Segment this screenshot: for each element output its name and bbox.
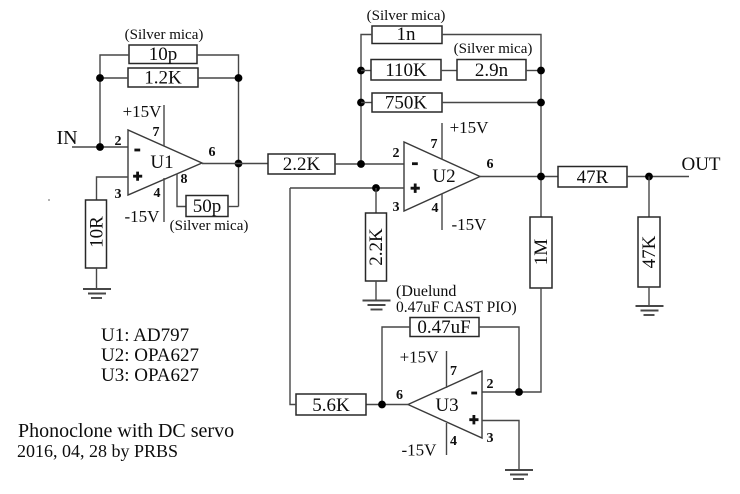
wire R3 to U2 pin 2	[335, 163, 404, 165]
wire R9 to U3 pin 2 row	[482, 288, 541, 392]
node junction left feedback	[96, 74, 104, 82]
stray dot	[48, 199, 50, 201]
op-amp U3	[408, 371, 482, 438]
wire U1 pin 3 to R2	[97, 177, 129, 200]
svg-text:(Silver mica): (Silver mica)	[454, 41, 533, 57]
U1 -15V supply	[125, 178, 164, 226]
U2 minus input mark	[412, 162, 418, 165]
svg-text:Phonoclone with DC servo: Phonoclone with DC servo	[18, 420, 234, 442]
wire from node to R1 left	[100, 77, 128, 79]
svg-text:1n: 1n	[397, 24, 417, 45]
node junction right 2.9n	[537, 67, 545, 75]
U1 +15V supply	[123, 102, 164, 146]
wire R6 to ground	[375, 281, 377, 300]
wire pin3 node to R6	[375, 188, 377, 213]
wire U1 pin 8 to C2	[177, 174, 186, 207]
svg-text:2.2K: 2.2K	[366, 228, 387, 266]
svg-text:(Duelund: (Duelund	[396, 283, 456, 300]
resistor R8 47K	[638, 217, 660, 287]
svg-text:3: 3	[393, 200, 400, 215]
svg-text:U1: U1	[150, 152, 173, 173]
wire feedback2 left vertical	[361, 35, 372, 165]
resistor R9 1M	[530, 217, 552, 288]
svg-text:-15V: -15V	[402, 441, 438, 460]
resistor R2 10R	[86, 200, 108, 268]
svg-text:-15V: -15V	[452, 215, 488, 234]
wire U1 output	[202, 163, 268, 165]
svg-text:U3: OPA627: U3: OPA627	[101, 365, 199, 386]
svg-text:(Silver mica): (Silver mica)	[125, 27, 204, 43]
U3 -15V supply	[402, 423, 447, 460]
svg-text:5.6K: 5.6K	[312, 395, 350, 416]
svg-text:10p: 10p	[149, 44, 178, 65]
resistor R1 1.2K	[128, 68, 198, 89]
svg-text:3: 3	[487, 431, 494, 446]
resistor R3 2.2K	[268, 154, 335, 175]
capacitor C4 2.9n	[457, 60, 526, 82]
wire U2 pin 3 row	[290, 187, 404, 189]
U3 plus input mark	[469, 415, 478, 424]
wire C5 left to servo output node	[382, 327, 410, 405]
svg-text:2: 2	[487, 377, 494, 392]
svg-text:6: 6	[209, 145, 216, 160]
svg-text:6: 6	[487, 157, 494, 172]
svg-text:OUT: OUT	[681, 154, 720, 175]
U3 +15V supply	[400, 348, 447, 389]
node junction pin3 shunt	[372, 184, 380, 192]
svg-text:2: 2	[393, 146, 400, 161]
U1 plus input mark	[133, 172, 142, 181]
svg-text:4: 4	[432, 201, 439, 216]
svg-text:0.47uF CAST PIO): 0.47uF CAST PIO)	[396, 299, 517, 316]
svg-text:2: 2	[115, 134, 122, 149]
svg-text:(Silver mica): (Silver mica)	[367, 8, 446, 24]
wire node to 110K left	[361, 70, 371, 72]
wire feedback2 right vertical	[442, 35, 541, 218]
ground under R2	[83, 289, 111, 298]
svg-text:47K: 47K	[639, 235, 660, 268]
U1 minus input mark	[134, 149, 140, 152]
capacitor C2 50p	[186, 196, 228, 218]
node junction right feedback	[235, 74, 243, 82]
node junction right 750K	[537, 99, 545, 107]
svg-text:U3: U3	[435, 395, 458, 416]
junction on IN wire	[96, 143, 104, 151]
svg-text:110K: 110K	[385, 60, 427, 81]
ground under U3 pin 3	[505, 470, 533, 479]
svg-text:1.2K: 1.2K	[144, 68, 182, 89]
wire R8 to ground	[648, 287, 650, 306]
svg-text:750K: 750K	[385, 93, 428, 114]
wire C5 right to U3 pin 2	[479, 327, 519, 392]
wire U2 output	[480, 176, 558, 178]
wire R2 to ground	[96, 268, 98, 289]
svg-text:7: 7	[153, 125, 160, 140]
wire U3 pin 3 to ground	[482, 421, 519, 471]
wire IN to U1 pin 2	[72, 146, 128, 148]
svg-text:U2: OPA627: U2: OPA627	[101, 345, 199, 366]
capacitor C5 0.47uF	[410, 317, 479, 338]
svg-text:4: 4	[450, 434, 457, 449]
ground under R8	[636, 306, 664, 315]
op-amp U2	[404, 142, 480, 211]
svg-text:10R: 10R	[87, 216, 108, 248]
svg-text:2.9n: 2.9n	[475, 60, 509, 81]
U3 minus input mark	[471, 392, 477, 395]
wire feedback left vertical	[100, 55, 129, 147]
wire node to 750K left	[361, 102, 372, 104]
wire tap to R8	[648, 177, 650, 218]
node U1 output junction	[235, 160, 243, 168]
node junction left 110K	[357, 67, 365, 75]
node U2 output junction	[537, 173, 545, 181]
resistor R4 110K	[371, 60, 441, 82]
wire R10 to U2 pin 3	[290, 188, 296, 405]
svg-text:2.2K: 2.2K	[283, 154, 321, 175]
svg-text:+15V: +15V	[400, 348, 440, 367]
wire U3 output to R10	[366, 404, 408, 406]
svg-text:47R: 47R	[577, 167, 609, 188]
svg-text:U2: U2	[432, 166, 455, 187]
svg-text:+15V: +15V	[123, 102, 163, 121]
node junction C5 pin2	[515, 388, 523, 396]
capacitor C3 1n	[372, 24, 442, 45]
node junction 47K tap	[645, 173, 653, 181]
svg-text:6: 6	[396, 388, 403, 403]
wire C4 to right rail	[526, 70, 541, 72]
wire C2 to output node	[228, 206, 239, 208]
svg-text:2016, 04, 28 by PRBS: 2016, 04, 28 by PRBS	[17, 441, 178, 461]
svg-text:IN: IN	[56, 127, 77, 149]
wire R7 to OUT	[627, 176, 689, 178]
U2 plus input mark	[411, 184, 420, 193]
wire feedback right vertical	[197, 55, 239, 207]
ground under R6	[363, 301, 391, 310]
resistor R7 47R	[558, 167, 627, 189]
svg-text:7: 7	[450, 364, 457, 379]
svg-text:0.47uF: 0.47uF	[417, 317, 470, 338]
svg-text:U1: AD797: U1: AD797	[101, 325, 189, 346]
svg-text:8: 8	[181, 172, 188, 187]
svg-text:1M: 1M	[531, 239, 552, 266]
wire R4 to C4	[441, 70, 457, 72]
U2 -15V supply	[442, 194, 487, 235]
svg-text:(Silver mica): (Silver mica)	[170, 218, 249, 234]
capacitor C1 10p	[129, 44, 197, 65]
wire from R1 right to node	[198, 77, 239, 79]
svg-text:+15V: +15V	[450, 118, 490, 137]
U2 +15V supply	[442, 118, 489, 160]
node junction left 750K	[357, 99, 365, 107]
svg-text:4: 4	[154, 186, 161, 201]
svg-text:-15V: -15V	[125, 207, 161, 226]
resistor R10 5.6K	[296, 394, 366, 416]
resistor R5 750K	[372, 93, 442, 114]
resistor R6 2.2K shunt	[366, 213, 388, 281]
op-amp U1	[128, 130, 202, 195]
node junction R3 U2 input	[357, 160, 365, 168]
wire R5 to right rail	[442, 102, 541, 104]
node junction servo output	[378, 401, 386, 409]
svg-text:3: 3	[115, 187, 122, 202]
svg-text:7: 7	[431, 137, 438, 152]
svg-text:50p: 50p	[193, 196, 222, 217]
